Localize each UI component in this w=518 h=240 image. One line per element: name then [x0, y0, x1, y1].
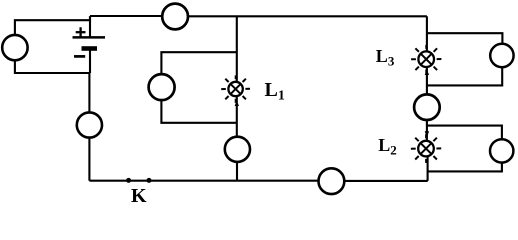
wire — [236, 16, 238, 82]
current arrow above L2 — [425, 131, 429, 137]
lamp L1 — [221, 75, 250, 102]
wire — [427, 67, 502, 85]
wire — [236, 162, 238, 181]
meter circle M3 (bottom middle) — [319, 168, 345, 194]
svg-text:K: K — [131, 185, 147, 207]
meter circle M6 (below L1) — [225, 137, 250, 162]
wire — [344, 180, 427, 182]
switch K contact dot — [147, 178, 152, 183]
wire (bottom run to switch and meter) — [89, 180, 318, 182]
wire — [426, 16, 428, 51]
svg-text:L3: L3 — [376, 46, 395, 69]
battery B1 negative plate — [82, 46, 98, 51]
current arrow below L1 — [235, 101, 239, 106]
wire — [427, 126, 502, 140]
svg-text:L2: L2 — [378, 135, 397, 158]
battery B1 positive plate — [73, 36, 106, 39]
wire — [161, 52, 236, 74]
wire — [89, 49, 91, 74]
wire — [88, 73, 90, 113]
switch K contact dot — [126, 178, 131, 183]
current arrow below L3 — [425, 70, 429, 76]
wire — [90, 15, 162, 17]
wire — [428, 163, 502, 172]
lamp L2 — [411, 134, 441, 163]
wire — [88, 138, 90, 181]
battery + symbol — [76, 27, 86, 37]
battery − symbol — [74, 55, 85, 58]
meter circle M8 (right middle) — [414, 94, 440, 120]
meter circle M7 (parallel with L3) — [490, 44, 513, 67]
wire — [89, 16, 91, 37]
meter circle M4 (top) — [162, 4, 188, 30]
wire — [236, 96, 238, 137]
meter circle M9 (parallel with L2) — [490, 139, 513, 162]
wire — [427, 33, 503, 44]
meter circle M2 (left lower) — [77, 112, 102, 137]
wire — [161, 100, 236, 123]
wire — [188, 15, 427, 17]
wire — [427, 156, 429, 181]
wire — [426, 67, 428, 95]
wire — [15, 60, 90, 73]
lamp L3 — [411, 45, 441, 74]
svg-text:L1: L1 — [265, 79, 285, 104]
wire — [15, 16, 90, 35]
wire — [426, 120, 428, 141]
meter circle M5 (parallel with L1) — [149, 74, 175, 100]
meter circle M1 (far left) — [2, 35, 27, 60]
